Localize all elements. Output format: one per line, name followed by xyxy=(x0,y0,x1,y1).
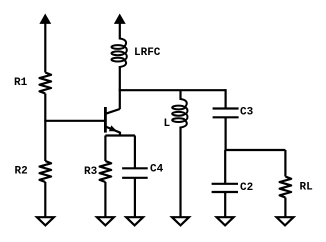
ground (below C2) xyxy=(217,217,234,225)
capacitor C3 xyxy=(213,109,239,118)
svg-text:L: L xyxy=(164,118,171,130)
wire output node down to C2 xyxy=(224,150,226,184)
svg-text:R1: R1 xyxy=(14,77,28,89)
resistor R1 xyxy=(40,73,52,94)
svg-text:RL: RL xyxy=(300,182,314,194)
ground (below R2) xyxy=(37,217,54,225)
wire LRFC bottom to collector xyxy=(119,66,121,109)
svg-text:LRFC: LRFC xyxy=(134,47,161,59)
wire supply arrow to R1 top xyxy=(44,22,46,73)
transistor Q1 emitter arrow xyxy=(109,125,117,131)
inductor LRFC xyxy=(112,39,127,68)
inductor L xyxy=(172,99,187,128)
transistor Q1 collector lead xyxy=(105,109,119,114)
wire inductor L bottom to ground xyxy=(179,127,181,218)
wire C2 bottom to ground xyxy=(224,192,226,217)
svg-text:R3: R3 xyxy=(84,166,98,178)
capacitor C4 xyxy=(122,168,148,178)
wire output node rail to RL xyxy=(226,149,286,151)
svg-text:R2: R2 xyxy=(15,166,28,178)
wire output node down to RL xyxy=(284,150,286,177)
svg-text:C3: C3 xyxy=(240,107,254,119)
wire supply arrow to LRFC top xyxy=(119,22,121,40)
transistor Q1 emitter lead xyxy=(105,127,120,137)
ground (below C4) xyxy=(126,217,143,225)
wire R1 bottom to R2 top (through base node) xyxy=(44,94,46,162)
svg-text:C2: C2 xyxy=(240,182,253,194)
wire emitter rail down to R3 xyxy=(104,136,106,162)
ground (below R3) xyxy=(97,217,114,225)
power arrow (supply, LRFC branch) xyxy=(114,14,126,24)
transistor Q1 base bar xyxy=(104,107,107,133)
wire R2 bottom to ground xyxy=(44,182,46,217)
resistor R2 xyxy=(40,161,52,182)
wire collector rail down to C3 xyxy=(225,89,227,108)
wire collector node rail xyxy=(119,89,226,91)
wire R3 bottom to ground xyxy=(104,182,106,217)
ground (below RL) xyxy=(277,217,294,225)
power arrow (supply, R1 branch) xyxy=(39,14,51,24)
capacitor C2 xyxy=(212,184,238,192)
wire base node to transistor base xyxy=(44,120,105,122)
wire emitter rail (R3/C4 top) xyxy=(105,134,134,136)
wire RL bottom to ground xyxy=(284,198,286,218)
resistor RL xyxy=(280,177,292,198)
wire collector node down to inductor L xyxy=(179,90,181,100)
svg-text:C4: C4 xyxy=(150,164,164,176)
wire emitter rail down to C4 xyxy=(134,136,136,169)
ground (below L) xyxy=(172,217,189,225)
wire C4 bottom to ground xyxy=(134,178,136,218)
wire C3 bottom to output node xyxy=(225,117,227,150)
resistor R3 xyxy=(100,161,112,182)
